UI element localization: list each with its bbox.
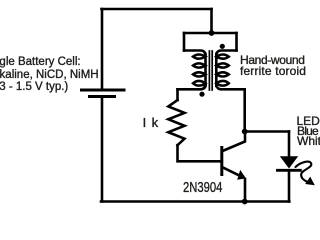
battery BT1 bbox=[82, 90, 125, 97]
transistor Q1 emitter arrow bbox=[237, 170, 246, 180]
transformer T1 core bbox=[209, 51, 212, 90]
wire secondary drop bbox=[243, 89, 246, 131]
transformer T1 right box side bbox=[235, 33, 238, 51]
node junction top bbox=[209, 30, 215, 36]
label toroid line 2 bbox=[240, 64, 306, 78]
transistor Q1 collector bbox=[223, 132, 246, 152]
transformer T1 secondary top lead bbox=[216, 51, 236, 57]
label LED line 3 bbox=[297, 134, 320, 148]
label battery text line 1 bbox=[0, 56, 81, 68]
transformer T1 secondary bottom lead bbox=[216, 84, 244, 89]
label battery text line 3 bbox=[0, 81, 68, 93]
label transistor 2N3904 bbox=[183, 180, 222, 196]
node junction collector/LED bbox=[242, 129, 248, 135]
label resistor value 1 k bbox=[143, 115, 159, 130]
label LED line 1 bbox=[297, 114, 320, 128]
label battery text line 2 bbox=[0, 69, 99, 81]
wire battery bottom bbox=[101, 98, 104, 202]
wire bottom rail bbox=[101, 200, 289, 203]
wire emitter to bottom rail bbox=[244, 179, 247, 202]
label LED line 2 bbox=[297, 124, 318, 138]
LED D1 triangle bbox=[280, 156, 298, 168]
transformer T1 secondary winding vertical bbox=[215, 54, 218, 86]
wire right top vertical bbox=[210, 9, 213, 33]
wire left rail top bbox=[101, 9, 104, 88]
wire resistor bottom to base bbox=[178, 145, 222, 161]
wire resistor top bbox=[176, 89, 179, 100]
transformer T1 phase dot primary bbox=[199, 92, 204, 97]
transistor Q1 base bar bbox=[220, 148, 223, 175]
label toroid line 1 bbox=[240, 53, 305, 67]
wire LED cathode to rail bbox=[288, 172, 291, 202]
wire top rail bbox=[102, 8, 212, 11]
transformer T1 primary top lead bbox=[184, 51, 206, 57]
LED D1 emission squiggle arrow bbox=[296, 162, 312, 182]
transformer T1 primary winding loops bbox=[193, 55, 206, 86]
transformer T1 primary winding vertical bbox=[204, 54, 207, 86]
resistor R1 bbox=[168, 100, 184, 145]
transformer T1 top bar bbox=[184, 32, 237, 35]
transformer T1 primary bottom lead bbox=[178, 84, 206, 89]
LED D1 cathode bar bbox=[278, 169, 301, 172]
LED D1 squiggle arrowhead bbox=[305, 177, 315, 186]
transformer T1 secondary winding loops bbox=[216, 55, 229, 86]
transformer T1 phase dot secondary bbox=[220, 44, 225, 49]
node junction emitter/rail bbox=[242, 199, 248, 205]
transistor Q1 emitter bbox=[223, 167, 238, 174]
transformer T1 left box side bbox=[183, 33, 186, 51]
wire LED anode bbox=[288, 132, 291, 157]
wire LED branch horizontal bbox=[245, 130, 289, 133]
